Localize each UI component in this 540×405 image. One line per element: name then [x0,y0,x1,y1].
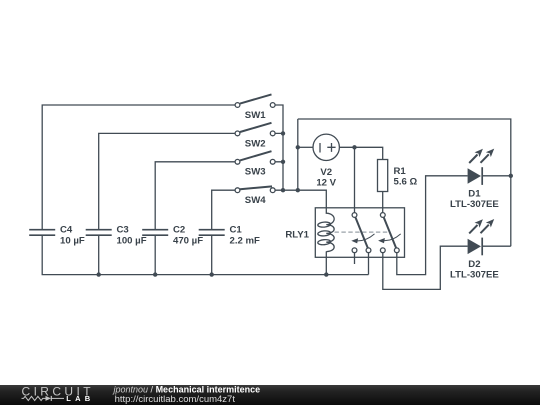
svg-text:R1: R1 [394,166,407,177]
junction V2 negative lead [296,145,300,149]
junction relay coil on ground bus [324,272,328,276]
junction C3 on ground bus [97,272,101,276]
capacitor C4 [29,230,55,236]
junction SW2 output on bus [281,131,285,135]
junction V2 negative branch lower [296,188,300,192]
junction C2 on ground bus [153,272,157,276]
wire D1 cathode to bus [482,175,511,177]
wire ground bus capacitors to relay [42,235,368,274]
svg-text:http://circuitlab.com/cum4z7t: http://circuitlab.com/cum4z7t [115,394,236,405]
LED D1 [468,149,495,185]
junction C1 on ground bus [210,272,214,276]
svg-text:LTL-307EE: LTL-307EE [450,270,499,281]
svg-text:12 V: 12 V [316,178,336,189]
wire relay pole1 NC stub [354,253,356,264]
switch SW2 [235,123,275,136]
svg-text:10 µF: 10 µF [60,235,85,246]
svg-text:LAB: LAB [66,394,94,403]
wire C4 top lead to SW1 [42,105,235,230]
LED D2 [468,219,495,255]
switch SW3 [235,151,275,164]
svg-text:D2: D2 [468,259,480,270]
svg-text:SW2: SW2 [245,138,266,149]
resistor R1 [378,160,388,192]
wire relay pole1 top to V2 node [354,147,356,212]
relay RLY1 pole 1 [351,213,374,253]
switch SW1 [235,94,275,107]
svg-text:470 µF: 470 µF [173,235,203,246]
svg-text:C2: C2 [173,225,185,236]
wire switch output bus [275,105,283,190]
junction D1 cathode on bus [509,174,513,178]
relay RLY1 dashed link [335,231,388,233]
switch SW4 [235,186,275,192]
relay RLY1 pole 2 [378,213,401,253]
svg-text:SW1: SW1 [245,110,266,121]
svg-text:RLY1: RLY1 [285,230,309,241]
wire V2 negative branch vertical [297,119,299,190]
svg-text:LTL-307EE: LTL-307EE [450,199,499,210]
svg-text:V2: V2 [320,167,332,178]
junction relay pole1 feed [352,145,356,149]
svg-text:SW3: SW3 [245,167,266,178]
wire D2 cathode to bus [482,245,511,247]
wire relay pole2 left contact to D2 anode [383,246,468,289]
relay RLY1 coil [318,208,335,252]
relay RLY1 box [315,208,404,257]
wire relay coil bottom to ground bus [325,251,327,274]
voltage source V2 [313,134,339,160]
junction SW3 output on bus [281,160,285,164]
wire SW bus to relay coil top [283,190,326,208]
wire C3 top lead to SW2 [99,133,235,229]
wire V2 left lead [298,146,313,148]
footer logo squiggle [22,396,65,401]
wire relay pole1 NO to ground bus [368,253,370,275]
capacitor C3 [86,230,112,236]
wire relay pole2 right contact to D1 anode [397,176,468,275]
svg-text:C1: C1 [230,225,243,236]
svg-text:C3: C3 [117,225,129,236]
wire V2 right lead to R1 top [339,147,382,159]
wire top rail to LED cathode bus [298,119,511,246]
footer bar [0,385,540,405]
wire C2 top lead to SW3 [155,162,235,230]
wire C1 top lead to SW4 [212,190,235,230]
svg-text:100 µF: 100 µF [117,235,147,246]
capacitor C1 [199,230,225,236]
junction SW4 output on bus [281,188,285,192]
wire R1 bottom to relay pole2 [382,192,384,213]
svg-text:D1: D1 [468,188,481,199]
capacitor C2 [142,230,168,236]
svg-text:5.6 Ω: 5.6 Ω [394,177,418,188]
svg-text:2.2 mF: 2.2 mF [230,235,261,246]
svg-text:jpontnou / Mechanical intermit: jpontnou / Mechanical intermitence [113,384,261,394]
svg-text:C4: C4 [60,225,73,236]
svg-text:SW4: SW4 [245,195,266,206]
